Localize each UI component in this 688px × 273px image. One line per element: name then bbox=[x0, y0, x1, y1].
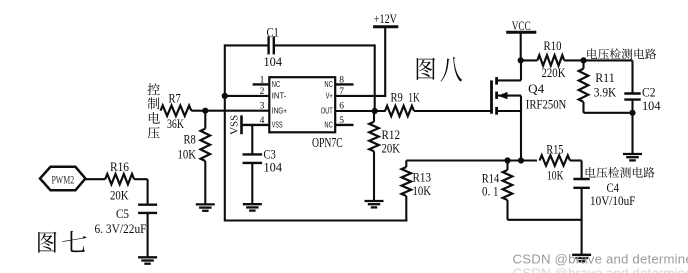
pin number 1 bbox=[260, 75, 265, 85]
svg-text:CSDN @brave and determined: CSDN @brave and determined bbox=[513, 266, 688, 273]
label 电压检测电路 (voltage detection circuit) upper bbox=[587, 48, 656, 59]
capacitor C4 bbox=[573, 179, 589, 188]
svg-text:C1: C1 bbox=[267, 26, 279, 40]
svg-text:R12: R12 bbox=[382, 128, 401, 142]
label C4 bbox=[607, 181, 620, 195]
pin number 8 bbox=[339, 75, 344, 85]
svg-text:IRF250N: IRF250N bbox=[526, 97, 567, 112]
transistor Q4 drain lead bbox=[497, 60, 521, 80]
label C4 value 10V/10uF bbox=[590, 194, 635, 208]
svg-text:NC: NC bbox=[324, 79, 332, 89]
label R9 bbox=[391, 91, 403, 105]
label R16 bbox=[110, 160, 129, 174]
pin label VSS bbox=[272, 120, 283, 130]
resistor R8 bbox=[201, 111, 211, 205]
label C5 bbox=[116, 207, 129, 221]
pin 8 stub (NC) bbox=[335, 83, 353, 85]
label control voltage 控制电压 (vertical) bbox=[148, 83, 160, 138]
wire C2 to ground bbox=[631, 100, 633, 154]
label R13 bbox=[413, 171, 432, 185]
label R7 value 36K bbox=[167, 117, 184, 131]
svg-text:OUT: OUT bbox=[321, 106, 334, 116]
svg-text:R11: R11 bbox=[595, 71, 615, 85]
wire C2 top drop bbox=[631, 60, 633, 93]
svg-text:R9: R9 bbox=[391, 91, 403, 105]
capacitor C3 bbox=[243, 154, 263, 163]
power VCC label bbox=[512, 19, 531, 33]
pin 1 stub (NC) bbox=[253, 83, 270, 85]
wire R15 to C4 bbox=[570, 161, 582, 180]
label R8 value 10K bbox=[178, 147, 197, 161]
node PWM2 port bbox=[40, 167, 85, 191]
svg-text:10K: 10K bbox=[178, 147, 197, 161]
svg-text:C3: C3 bbox=[264, 148, 276, 162]
svg-text:INT-: INT- bbox=[272, 91, 287, 101]
pin 5 stub (NC) bbox=[335, 124, 353, 126]
resistor R15 bbox=[540, 155, 571, 165]
transistor Q4 source lead bbox=[497, 96, 521, 161]
svg-text:R7: R7 bbox=[169, 92, 181, 106]
junction node R7/R8 bbox=[202, 108, 208, 114]
svg-text:VSS: VSS bbox=[229, 115, 241, 135]
label R13 value 10K bbox=[413, 184, 432, 198]
junction node R14 top bbox=[504, 157, 510, 163]
junction node VCC/R10/drain bbox=[518, 57, 524, 63]
pin label NC bbox=[324, 79, 332, 89]
label R12 value 20K bbox=[382, 141, 401, 155]
label R8 bbox=[184, 133, 196, 147]
resistor R14 bbox=[503, 161, 513, 220]
label C3 value 104 bbox=[264, 161, 283, 175]
pin label OUT bbox=[321, 106, 334, 116]
svg-text:220K: 220K bbox=[542, 66, 566, 80]
svg-text:R14: R14 bbox=[482, 172, 500, 186]
label R9 value 1K bbox=[408, 91, 420, 105]
label C1 value 104 bbox=[264, 55, 283, 69]
label VSS (rotated) bbox=[229, 115, 241, 135]
label C5 value 6.3V/22uF bbox=[95, 222, 147, 236]
svg-text:104: 104 bbox=[642, 99, 661, 113]
svg-text:C2: C2 bbox=[642, 86, 656, 100]
label C3 bbox=[264, 148, 276, 162]
resistor R7 bbox=[161, 106, 192, 116]
op-amp U1 OPN7C body bbox=[269, 77, 335, 132]
caption 图八 (Figure 8) bbox=[417, 57, 463, 82]
svg-text:1: 1 bbox=[260, 75, 265, 85]
label R11 bbox=[595, 71, 615, 85]
svg-text:NC: NC bbox=[272, 79, 280, 89]
VSS terminal bar bbox=[240, 115, 243, 134]
svg-text:104: 104 bbox=[264, 55, 283, 69]
svg-text:R10: R10 bbox=[544, 39, 562, 53]
wire C3 to ground bbox=[251, 163, 253, 204]
svg-text:10V/10uF: 10V/10uF bbox=[590, 194, 635, 208]
label Q4 bbox=[528, 81, 545, 96]
svg-text:20K: 20K bbox=[382, 141, 401, 155]
label R10 value 220K bbox=[542, 66, 566, 80]
resistor R13 bbox=[402, 161, 412, 222]
wire +12V to V+ pin bbox=[384, 27, 386, 97]
caption 图七 (Figure 7) bbox=[38, 231, 86, 253]
svg-text:OPN7C: OPN7C bbox=[312, 135, 343, 150]
svg-text:VSS: VSS bbox=[272, 120, 283, 130]
wire IC pin 6 OUT bbox=[335, 110, 385, 112]
wire feedback left vertical bbox=[224, 44, 226, 221]
transistor Q4 channel segments bbox=[495, 77, 498, 115]
pin number 7 bbox=[339, 87, 344, 97]
pin number 2 bbox=[260, 87, 265, 97]
svg-text:1K: 1K bbox=[408, 91, 420, 105]
wire R7 to IC pin 3 ING+ bbox=[191, 110, 269, 112]
svg-text:ING+: ING+ bbox=[272, 106, 287, 116]
svg-text:10K: 10K bbox=[413, 184, 432, 198]
ground below C4 bbox=[572, 255, 591, 261]
wire C4 to ground bbox=[581, 188, 583, 255]
pin label NC bbox=[324, 120, 332, 130]
ground below C3 bbox=[243, 204, 262, 210]
ground below C2 bbox=[623, 154, 642, 160]
label R14 value 0.1 bbox=[482, 185, 499, 199]
junction node R10/R11 bbox=[580, 57, 586, 63]
label Q4 part IRF250N bbox=[526, 97, 567, 112]
wire VCC down bbox=[520, 32, 522, 60]
label PWM2 bbox=[51, 174, 74, 186]
ground below R8 bbox=[196, 204, 215, 210]
transistor Q4 gate bar bbox=[490, 80, 493, 113]
wire R14 bottom run bbox=[508, 219, 583, 221]
pin 4 stub wire to VSS bbox=[242, 124, 270, 126]
junction node Q4 source bbox=[518, 157, 524, 163]
label R14 bbox=[482, 172, 500, 186]
label R11 value 3.9K bbox=[594, 85, 617, 99]
wire R11 bottom to C2 bbox=[584, 112, 633, 114]
pin label ING+ bbox=[272, 106, 287, 116]
resistor R10 bbox=[521, 55, 633, 65]
junction node INT-/C1 bbox=[222, 93, 228, 99]
capacitor C5 bbox=[138, 205, 157, 213]
svg-text:Q4: Q4 bbox=[528, 81, 545, 96]
svg-text:C5: C5 bbox=[116, 207, 129, 221]
pin label NC bbox=[272, 79, 280, 89]
wire C1 top left segment bbox=[225, 44, 268, 46]
wire pin4 to C3 drop bbox=[251, 125, 253, 154]
label R12 bbox=[382, 128, 401, 142]
power VCC bar bbox=[506, 31, 536, 34]
power +12V label bbox=[374, 12, 397, 26]
resistor R16 bbox=[105, 174, 134, 184]
wire sense node run bbox=[406, 159, 537, 161]
junction node OUT/C1/R12 bbox=[372, 108, 378, 114]
power +12V bar bbox=[373, 25, 398, 28]
label R15 value 10K bbox=[547, 168, 564, 182]
svg-text:R8: R8 bbox=[184, 133, 196, 147]
svg-text:0. 1: 0. 1 bbox=[482, 185, 499, 199]
svg-text:6. 3V/22uF: 6. 3V/22uF bbox=[95, 222, 147, 236]
svg-text:5: 5 bbox=[339, 116, 344, 126]
pin number 5 bbox=[339, 116, 344, 126]
svg-text:10K: 10K bbox=[547, 168, 564, 182]
wire IC pin 7 V+ bbox=[335, 95, 386, 97]
transistor Q4 source arrow bbox=[498, 92, 508, 99]
pin number 4 bbox=[260, 116, 265, 126]
svg-text:R15: R15 bbox=[546, 142, 563, 156]
wire C1 to OUT vertical bbox=[374, 45, 376, 111]
svg-text:104: 104 bbox=[264, 161, 283, 175]
watermark ghost second line bbox=[513, 266, 688, 273]
resistor R9 bbox=[385, 106, 414, 116]
label C1 bbox=[267, 26, 279, 40]
pin label V+ bbox=[326, 91, 333, 101]
wire bottom feedback run bbox=[225, 219, 408, 221]
pin number 3 bbox=[260, 102, 265, 112]
svg-text:R16: R16 bbox=[110, 160, 129, 174]
resistor R11 bbox=[579, 60, 589, 112]
svg-text:NC: NC bbox=[324, 120, 332, 130]
capacitor C1 bbox=[269, 36, 274, 54]
wire C1 top right segment bbox=[275, 44, 376, 46]
ground below C5 bbox=[138, 257, 157, 263]
pin number 6 bbox=[339, 102, 344, 112]
svg-text:CSDN @brave and determined: CSDN @brave and determined bbox=[513, 252, 688, 267]
label 电压检测电路 (voltage detection circuit) lower bbox=[586, 167, 655, 178]
pin label INT- bbox=[272, 91, 287, 101]
label R7 bbox=[169, 92, 181, 106]
svg-text:20K: 20K bbox=[110, 188, 129, 202]
label U1 part number OPN7C bbox=[312, 135, 343, 150]
wire PWM2 to R16 bbox=[85, 178, 105, 180]
svg-text:R13: R13 bbox=[413, 171, 432, 185]
watermark CSDN bbox=[513, 252, 688, 267]
wire C5 to ground bbox=[147, 213, 149, 257]
svg-text:4: 4 bbox=[260, 116, 265, 126]
label C2 bbox=[642, 86, 656, 100]
capacitor C2 bbox=[624, 94, 640, 100]
svg-text:PWM2: PWM2 bbox=[51, 174, 74, 186]
ground below R12 bbox=[365, 201, 384, 207]
resistor R12 bbox=[369, 111, 379, 201]
svg-text:3.9K: 3.9K bbox=[594, 85, 617, 99]
wire IC pin 2 INT- to feedback node bbox=[225, 95, 269, 97]
label R10 bbox=[544, 39, 562, 53]
junction node C2/R11 bottom bbox=[629, 110, 635, 116]
label C2 value 104 bbox=[642, 99, 661, 113]
label R15 bbox=[546, 142, 563, 156]
svg-text:V+: V+ bbox=[326, 91, 333, 101]
label R16 value 20K bbox=[110, 188, 129, 202]
svg-text:36K: 36K bbox=[167, 117, 184, 131]
svg-text:8: 8 bbox=[339, 75, 344, 85]
wire R16 to C5 bbox=[134, 179, 148, 204]
svg-text:+12V: +12V bbox=[374, 12, 397, 26]
wire R9 to Q4 gate bbox=[414, 110, 493, 112]
